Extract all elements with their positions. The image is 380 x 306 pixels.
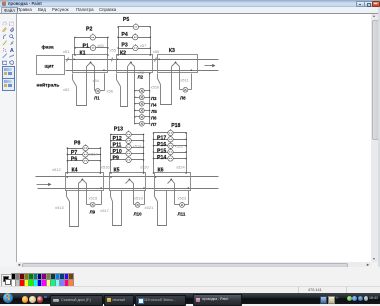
node K2 peak [130,62,132,64]
arrow direction right [205,65,213,67]
svg-text:К4: К4 [72,167,78,173]
svg-text:Л2: Л2 [138,74,144,79]
lamp chain bulb 4 [139,108,144,113]
wire chain lamp lead right [145,97,150,99]
svg-text:Р17: Р17 [157,136,166,142]
junction [74,47,76,49]
svg-text:х54: х54 [93,78,100,83]
contactor box K5 [110,173,146,191]
node K5 peak [129,179,131,181]
wire P7 branch [68,154,101,156]
wire loop under K2 [121,67,128,107]
node K1 peak [90,62,92,64]
junction [149,123,150,124]
junction [155,176,157,178]
tick mark on phase bus [67,58,69,62]
pushbutton P5 [133,23,138,30]
pushbutton P2 [90,34,95,41]
svg-text:х519: х519 [134,196,143,201]
wire P8 branch [68,148,101,150]
junction [150,36,152,38]
pushbutton P1 [90,44,95,51]
svg-text:Р13: Р13 [114,127,123,133]
pushbutton P4 [133,33,138,40]
svg-text:Р15: Р15 [157,148,166,154]
svg-text:К6: К6 [158,167,164,173]
wire lamp L8 left lead [180,89,183,91]
wire lamp L8 right lead [188,89,192,91]
junction [67,147,69,149]
svg-text:х51: х51 [63,49,70,54]
wire P3 branch [119,48,151,50]
svg-text:х520: х520 [140,165,149,170]
junction [185,139,187,141]
junction [143,187,145,189]
wire K1 lamp feed [94,67,96,91]
pushbutton P8 [83,144,88,151]
junction [67,160,69,162]
svg-text:Р5: Р5 [123,17,129,23]
wire ladder1 left rail [74,38,76,55]
lamp chain bulb 5 [139,115,144,120]
taskbar [0,293,380,304]
junction [74,54,76,56]
svg-text:Л8: Л8 [180,96,186,101]
wire chain lamp lead right [145,103,150,105]
svg-text:нейтраль: нейтраль [37,82,60,89]
junction [153,158,155,160]
panel box щит [37,56,65,75]
wire ladder6 branch [154,139,187,141]
svg-text:Л1: Л1 [94,95,100,100]
junction [153,139,155,141]
switch contact at K2 [117,80,121,87]
wire chain lamp lead left [136,116,140,118]
junction [107,37,109,39]
junction [153,132,155,134]
pushbutton row [168,129,173,136]
junction [143,159,145,161]
junction [158,59,160,61]
pushbutton row [126,137,131,144]
svg-text:х518: х518 [133,143,142,148]
horizontal scrollbar [17,262,371,267]
svg-text:Р6: Р6 [71,156,77,162]
junction [67,172,69,174]
svg-text:Л7: Л7 [151,122,157,127]
junction [107,47,109,49]
wire K4 lamp feed [86,184,88,205]
wire chain lamp lead left [136,97,140,99]
wire K5 lamp feed [133,184,135,205]
svg-text:Р2: Р2 [86,26,92,32]
switch contact at K3 [158,79,161,85]
junction [100,147,102,149]
junction [149,103,150,104]
wire K4 down-left [66,191,68,197]
arrow direction lower [37,184,49,186]
wire ladder1 right rail [107,38,109,55]
svg-text:х521: х521 [145,205,154,210]
junction [134,90,135,91]
wire loop under K3 [161,67,172,105]
wire ladder6 branch [154,152,187,154]
svg-text:х524: х524 [176,165,185,170]
contact chevron K6 [168,180,175,184]
svg-text:х512: х512 [52,167,61,172]
wire K5 down-left [110,191,112,197]
junction [143,140,145,142]
junction [153,172,155,174]
tick mark on phase bus [112,58,113,62]
lamp chain bulb 6 [139,121,144,126]
svg-text:Р14: Р14 [157,155,166,161]
svg-text:х523: х523 [178,196,187,201]
junction [117,54,119,56]
junction [185,151,187,153]
wire neutral bus [66,70,219,72]
wire P1 branch [75,47,108,49]
wire ladder4 left rail [67,149,69,173]
tick mark on phase bus [155,58,157,62]
wire lamp L9 right lead [96,204,102,206]
lamp L1 [95,89,100,94]
junction [185,132,187,134]
junction [100,154,102,156]
wire L1 return [104,74,106,91]
wire ladder6 left rail [153,133,155,173]
wire lower bus A [36,176,219,178]
svg-text:х517: х517 [100,208,109,213]
svg-text:х522: х522 [175,143,184,148]
wire L9 return [101,191,103,205]
svg-text:щит: щит [45,64,55,69]
wire ladder5 branch [111,134,144,136]
svg-text:х59: х59 [153,49,160,54]
pushbutton P3 [133,44,138,51]
svg-text:К3: К3 [169,48,175,54]
junction [107,54,109,56]
pushbutton row [126,150,131,157]
junction [74,37,76,39]
title bar [0,0,380,7]
svg-text:х516: х516 [101,165,110,170]
junction [149,110,150,111]
junction [191,69,193,71]
junction [149,73,151,75]
lamp L8 [183,87,188,92]
junction [66,176,68,178]
wire ladder5 branch [111,147,144,149]
svg-text:Р3: Р3 [121,43,127,49]
wire ladder5 branch [111,159,144,161]
wire lamp L1 left lead [95,90,96,92]
svg-text:К2: К2 [120,51,126,57]
wire chain lamp lead left [136,123,140,125]
junction [149,90,150,91]
wire L8 return [191,74,193,90]
status bar [0,286,380,294]
junction [103,69,105,71]
svg-text:Р7: Р7 [71,150,77,156]
contactor box K6 [155,173,191,191]
wire ladder5 right rail [143,135,145,173]
svg-text:Р4: Р4 [121,32,127,38]
svg-text:Л6: Л6 [151,116,157,121]
lamp L11 [180,203,185,208]
junction [143,134,145,136]
wire ladder6 branch [154,132,187,134]
svg-text:Л5: Л5 [151,109,157,114]
junction [185,158,187,160]
junction [150,54,152,56]
junction [117,26,119,28]
junction [117,36,119,38]
junction [149,97,150,98]
contactor box K1 [73,55,108,73]
wire chain lamp lead left [136,90,140,92]
svg-text:х511: х511 [180,78,189,83]
junction [100,187,102,189]
canvas [17,14,371,262]
wire L10 return [144,191,146,205]
lamp chain bulb 1 [139,88,144,93]
wire ladder6 branch [154,158,187,160]
junction [143,172,145,174]
wire loop under K4 [70,184,79,227]
wire ladder2 right rail [150,27,152,55]
junction [117,59,119,61]
junction [185,145,187,147]
svg-text:Р8: Р8 [74,141,80,147]
svg-text:х513: х513 [55,205,64,210]
wire loop under K1 [77,67,87,106]
junction [143,146,145,148]
switch contact at K6 [155,197,158,202]
svg-text:Р16: Р16 [157,142,166,148]
contact chevron K2 [128,63,135,67]
junction [110,159,112,161]
palette [0,267,380,287]
pushbutton row [168,155,173,162]
svg-text:х56: х56 [107,88,114,93]
wire K1 down-left [72,74,74,80]
svg-text:Л10: Л10 [134,211,143,216]
junction [134,116,135,117]
junction [134,103,135,104]
wire K3 lamp feed [179,67,181,90]
pushbutton row [168,142,173,149]
contact chevron K5 [126,180,134,184]
wire lamp chain left rail [134,67,136,124]
node K6 peak [170,179,172,181]
contact chevron K3 [172,63,180,67]
pushbutton row [126,131,131,138]
wire K6 lamp feed [174,184,176,205]
contactor box K4 [66,173,104,191]
junction [150,47,152,49]
svg-text:х52: х52 [63,87,70,92]
wire ladder5 branch [111,140,144,142]
svg-text:К1: К1 [80,51,86,57]
svg-text:Л4: Л4 [151,102,157,107]
junction [134,97,135,98]
vertical scrollbar [371,14,378,262]
svg-text:К5: К5 [114,167,120,173]
contactor box K2 [117,55,153,73]
lamp chain bulb 3 [139,101,144,106]
junction [110,146,112,148]
junction [117,47,119,49]
wire lamp L10 left lead [134,204,136,206]
wire ladder5 branch [111,153,144,155]
junction [100,172,102,174]
svg-text:Р18: Р18 [171,123,180,129]
junction [110,153,112,155]
pushbutton row [126,156,131,163]
switch contact at x513 [67,197,70,202]
wire ladder4 right rail [100,149,102,173]
junction [185,172,187,174]
wire chain lamp lead left [136,110,140,112]
svg-text:х515: х515 [89,196,98,201]
svg-text:х55: х55 [110,48,117,53]
wire chain lamp lead right [145,123,150,125]
junction [153,145,155,147]
wire P2 branch [75,37,108,39]
junction [149,116,150,117]
svg-text:х53: х53 [97,43,104,48]
junction [188,187,190,189]
junction [100,160,102,162]
pushbutton row [168,135,173,142]
wire K3 down-left [157,74,159,79]
pushbutton P7 [83,151,88,158]
contact chevron K1 [87,63,95,67]
wire L11 return [188,191,190,205]
svg-text:х510: х510 [151,85,160,90]
wire P6 branch [68,160,101,162]
wire ladder5 left rail [110,135,112,173]
junction [110,176,112,178]
svg-text:Р12: Р12 [113,136,122,142]
svg-text:Л11: Л11 [178,211,186,216]
junction [134,110,135,111]
junction [67,154,69,156]
wire loop under K5 [113,191,122,226]
lamp chain bulb 2 [139,95,144,100]
wire chain lamp lead right [145,90,150,92]
junction [134,123,135,124]
lamp L10 [135,203,140,208]
wire lamp chain right rail [149,74,151,124]
wire P4 branch [119,37,151,39]
wire ladder2 left rail [118,27,120,55]
svg-text:х57: х57 [140,43,147,48]
svg-text:Р11: Р11 [113,143,122,149]
junction [150,26,152,28]
junction [73,59,75,61]
pushbutton row [126,143,131,150]
wire lamp L9 left lead [87,204,91,206]
svg-text:х514: х514 [89,151,98,156]
contactor box K3 [158,55,198,73]
wire ladder6 right rail [186,133,188,173]
wire K2 down-left [116,74,118,80]
svg-text:Р1: Р1 [83,43,89,49]
junction [110,140,112,142]
lamp L9 [90,202,95,207]
wire loop under K6 [158,191,167,226]
switch contact at x52 [73,80,77,87]
switch contact at K5 [111,197,113,202]
node K3 peak [175,62,177,64]
wire lower bus B [38,188,219,190]
wire ladder6 branch [154,145,187,147]
wire K6 down-left [154,191,156,197]
pushbutton P6 [83,157,88,164]
junction [153,151,155,153]
wire lamp L1 right lead [101,90,105,92]
svg-text:Р10: Р10 [113,149,122,155]
wire chain lamp lead left [136,103,140,105]
left tool panel [0,14,16,266]
svg-text:Р9: Р9 [113,155,119,161]
node K4 peak [81,179,83,181]
svg-text:фаза: фаза [42,44,54,51]
wire lamp L11 right lead [185,204,189,206]
pushbutton row [168,148,173,155]
wire phase bus [66,59,219,61]
junction [143,153,145,155]
svg-text:Л3: Л3 [151,96,157,101]
wire P5 branch [119,26,151,28]
wire lamp L10 right lead [141,204,145,206]
wire chain lamp lead right [145,116,150,118]
wire lamp L11 left lead [175,204,180,206]
junction [110,172,112,174]
contact chevron K4 [79,180,87,184]
svg-text:Л9: Л9 [90,210,96,215]
menu bar [0,7,380,13]
wire chain lamp lead right [145,110,150,112]
junction [110,134,112,136]
